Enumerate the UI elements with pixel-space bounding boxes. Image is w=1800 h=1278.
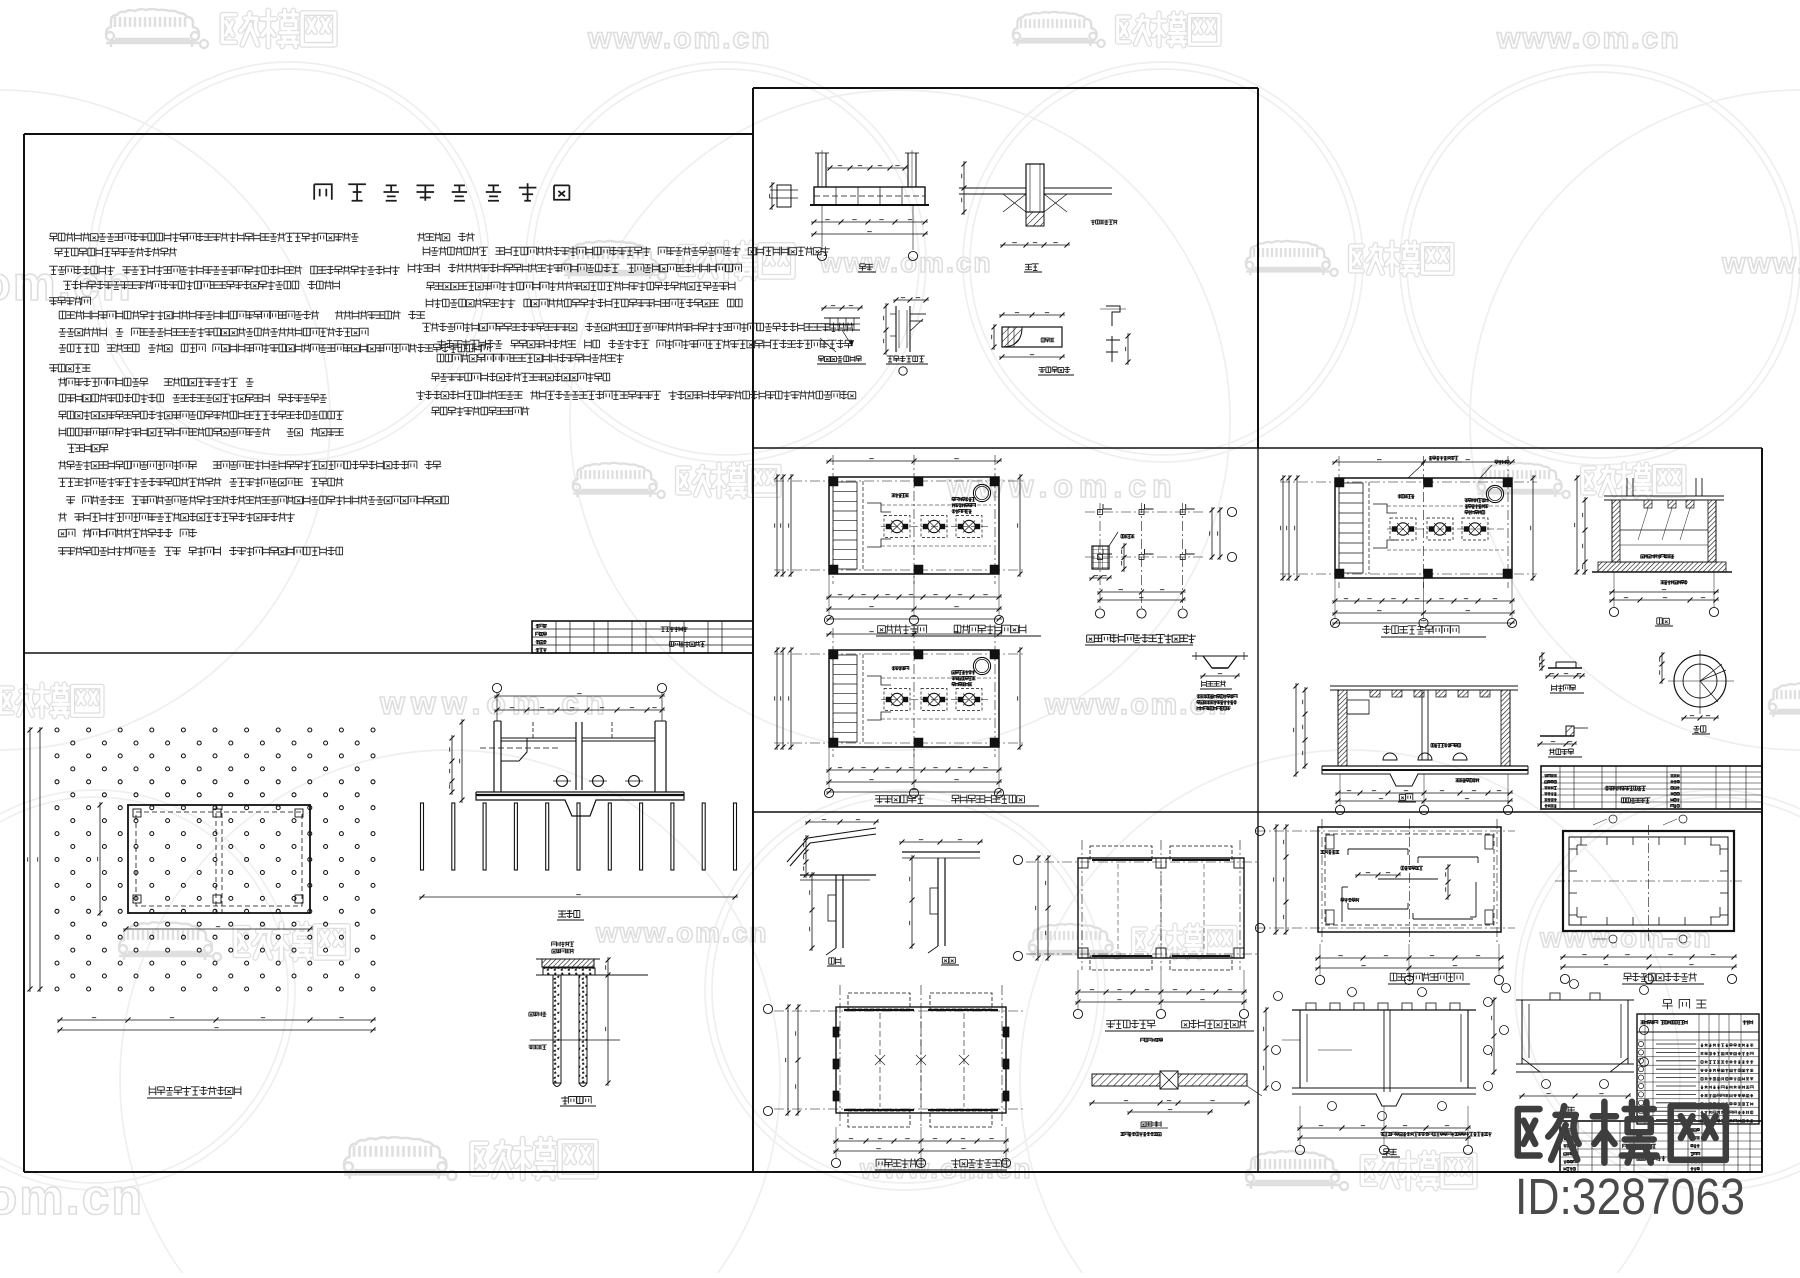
C-C circle detail [1660, 650, 1735, 721]
pile plan building outline [128, 805, 310, 913]
svg-text:www.om.cn: www.om.cn [379, 685, 611, 721]
left small detail [770, 182, 799, 210]
plan: 0 beam [763, 985, 1024, 1168]
caption plan1 [878, 625, 927, 634]
svg-text:ID:3287063: ID:3287063 [1515, 1168, 1745, 1225]
JL label [859, 264, 873, 271]
pile section label [561, 1096, 591, 1104]
sheet1 notes column 2 [417, 233, 475, 242]
plan: wall rebar [1555, 815, 1742, 984]
plan: pump house layout [1280, 456, 1537, 628]
rebar table title [1662, 999, 1706, 1009]
svg-text:www.om.cn: www.om.cn [587, 22, 772, 55]
wall section 2-2 [899, 840, 983, 954]
wall section 1-1 [787, 820, 879, 956]
caption bottom slab [1390, 973, 1463, 982]
plan: pump house 200 beam [774, 455, 1024, 625]
caption plan 0 beam [876, 1159, 926, 1168]
P3 title block [1541, 766, 1762, 809]
YB detail [992, 313, 1066, 360]
plan: 100 slab [1013, 840, 1259, 1019]
column plan [1085, 503, 1237, 618]
watermark logos row E [119, 922, 348, 961]
svg-text:www.om.cn: www.om.cn [859, 1153, 1033, 1184]
sheet1 title block table [532, 621, 753, 653]
watermark logos row C [573, 463, 779, 498]
1-1 label [1025, 264, 1039, 271]
svg-text:www.om.cn: www.om.cn [1721, 247, 1800, 280]
caption layout plan [1382, 625, 1459, 634]
plan: pump house 0 slab [774, 628, 1024, 798]
caption column plan [1087, 634, 1196, 643]
section A-A large [1294, 683, 1529, 815]
pile grid plan [55, 728, 375, 991]
section 1-1 bottom [1264, 988, 1493, 1155]
svg-text:www.om.cn: www.om.cn [946, 468, 1178, 504]
svg-text:www.om.cn: www.om.cn [819, 247, 993, 278]
section B-B [1575, 475, 1733, 617]
pile plan dims [28, 727, 377, 1033]
pile section detail [530, 957, 648, 1087]
detail niutui [884, 298, 930, 376]
plan: bottom slab rebar [1255, 819, 1515, 985]
caption plan2 [875, 795, 925, 803]
manhole detail [1537, 726, 1588, 747]
JL beam elevation [810, 150, 929, 261]
watermark logos row D [0, 683, 102, 718]
right corner details [1100, 306, 1131, 365]
pile plan caption [149, 1086, 241, 1095]
svg-text:www.om.cn: www.om.cn [1496, 22, 1681, 55]
P5 title block [1560, 1121, 1762, 1172]
svg-text:www.om.cn: www.om.cn [0, 1169, 144, 1225]
sheet1 notes column 1 [49, 233, 358, 242]
diaojin detail [1192, 652, 1248, 679]
caption plan 100 [1106, 1020, 1156, 1029]
detail jiaqiang [820, 306, 863, 353]
section 1-1 detail [959, 161, 1112, 248]
section A-A label [558, 910, 580, 918]
manhole cover detail [1540, 652, 1586, 679]
leaders on layout plan [1408, 462, 1492, 478]
big dark OMW watermark [1518, 1102, 1726, 1163]
svg-text:www.om.cn: www.om.cn [595, 917, 769, 948]
YB label [1039, 367, 1071, 373]
rebar table [1637, 1014, 1759, 1124]
caption wall rebar [1623, 973, 1697, 982]
sheet1 title [314, 183, 569, 201]
section A-A [419, 683, 738, 899]
watermark logos row A [106, 9, 335, 48]
note under table [1381, 1132, 1492, 1136]
slab strip detail [1089, 1071, 1262, 1115]
section 2-2 bottom [1492, 980, 1649, 1099]
